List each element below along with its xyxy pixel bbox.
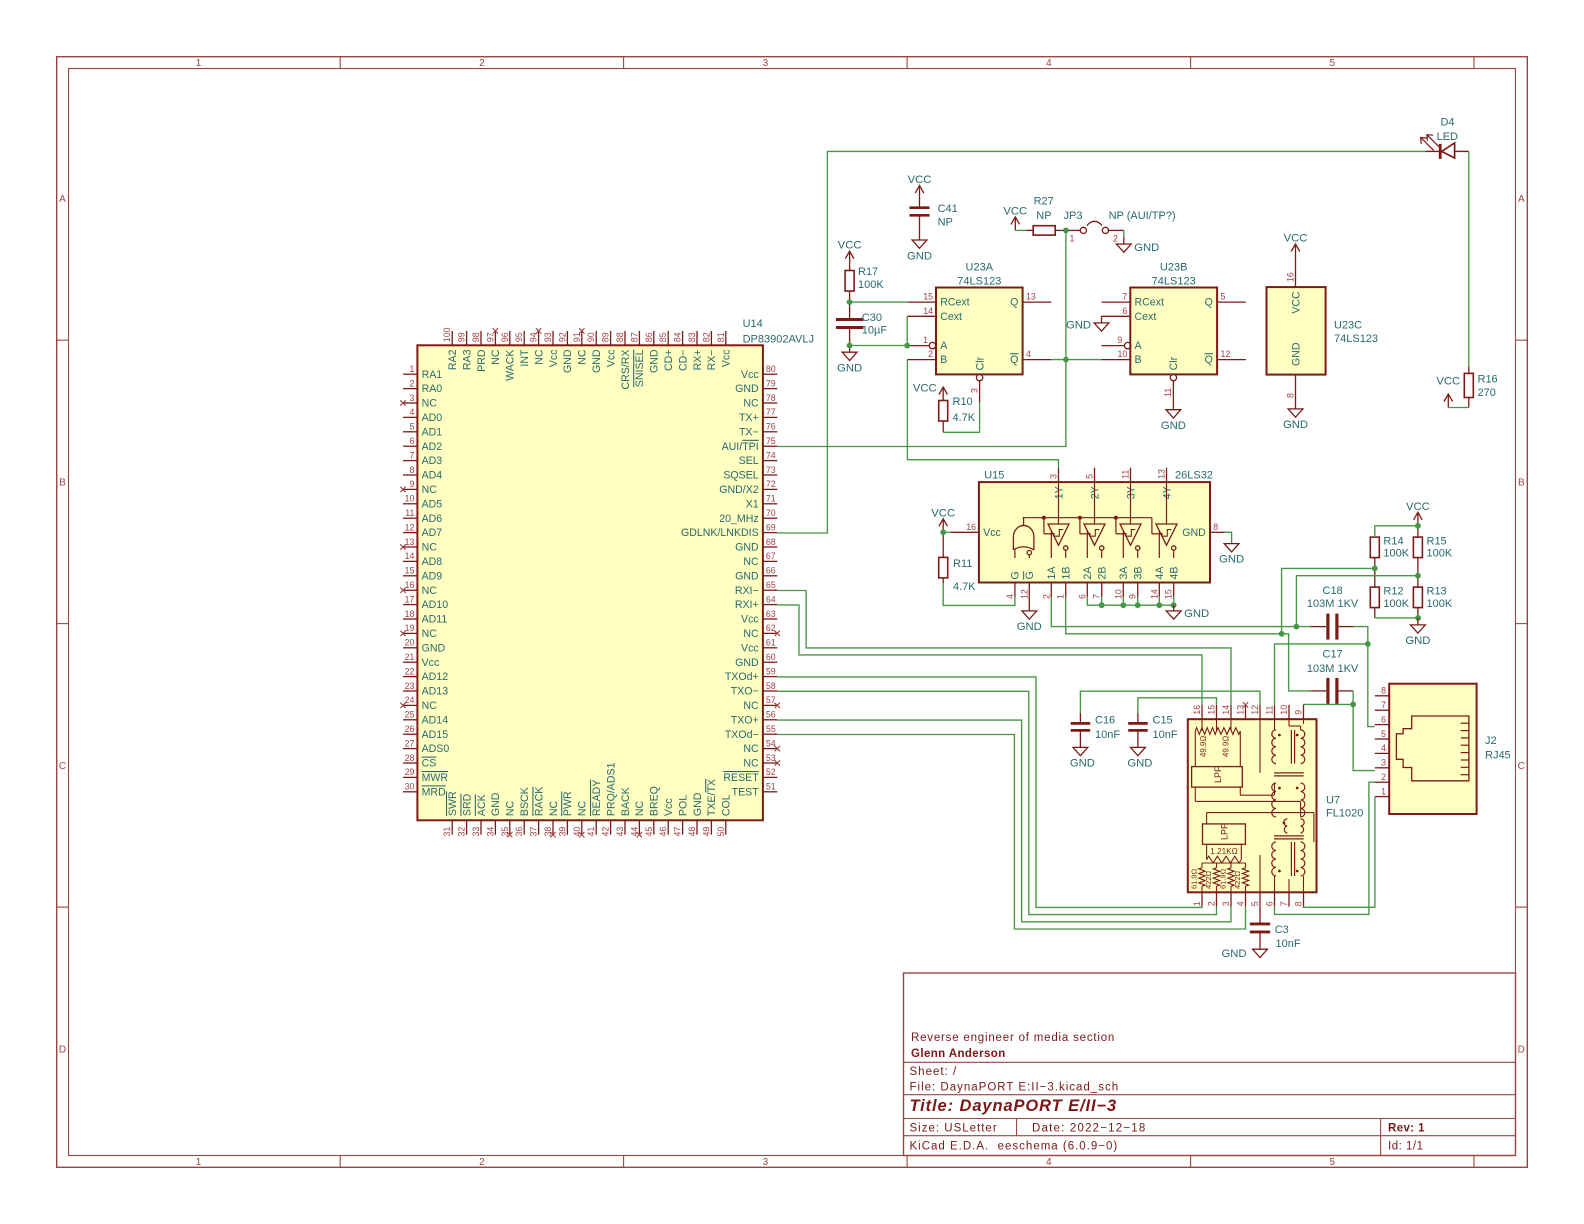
svg-text:VCC: VCC [1284, 233, 1308, 245]
svg-text:7: 7 [409, 450, 414, 460]
svg-text:98: 98 [471, 332, 481, 342]
wire AUI net U14.75 / R27 / JP3 / U23A.Q4 / U23B.B10 [777, 228, 1101, 447]
wire U7.8 to J2.1 [1304, 797, 1375, 908]
svg-text:4: 4 [1381, 743, 1386, 753]
svg-text:38: 38 [543, 827, 553, 837]
svg-text:99: 99 [457, 332, 467, 342]
svg-text:GND: GND [1134, 242, 1159, 254]
svg-text:Glenn Anderson: Glenn Anderson [911, 1048, 1006, 1060]
svg-text:JP3: JP3 [1064, 210, 1083, 222]
svg-text:9: 9 [1294, 710, 1304, 715]
svg-text:46: 46 [658, 827, 668, 837]
svg-text:11: 11 [1121, 470, 1131, 479]
wire VCC to R14 [1375, 523, 1421, 537]
svg-text:NP (AUI/TP?): NP (AUI/TP?) [1109, 210, 1176, 222]
svg-text:1: 1 [1070, 234, 1075, 244]
svg-text:3: 3 [969, 388, 979, 393]
svg-text:422Ω: 422Ω [1233, 870, 1242, 889]
svg-text:94: 94 [529, 332, 539, 342]
svg-text:AD2: AD2 [422, 441, 443, 453]
svg-text:13: 13 [1157, 469, 1167, 479]
svg-text:RCext: RCext [940, 297, 969, 309]
svg-text:NC: NC [743, 628, 759, 640]
svg-text:4B: 4B [1169, 567, 1181, 580]
svg-text:16: 16 [1285, 272, 1295, 282]
wire TXOd+ U14.59 to U7.1 [777, 677, 1202, 908]
svg-text:R10: R10 [953, 396, 973, 408]
svg-text:SQSEL: SQSEL [723, 470, 758, 482]
wire U7.6 to J2.2 [1275, 782, 1375, 914]
svg-text:5: 5 [1330, 58, 1336, 69]
svg-text:Vcc: Vcc [548, 349, 560, 367]
svg-text:66: 66 [766, 566, 776, 576]
svg-text:CD+: CD+ [663, 350, 675, 372]
svg-text:AD10: AD10 [422, 599, 449, 611]
resistor R15 100K [1413, 526, 1452, 576]
svg-text:6: 6 [1265, 901, 1275, 906]
svg-text:LED: LED [1437, 131, 1458, 143]
svg-text:16: 16 [966, 522, 976, 532]
svg-text:68: 68 [766, 537, 776, 547]
svg-text:A: A [940, 340, 948, 352]
svg-text:GND: GND [591, 349, 603, 373]
wire U15.2 1A to C18 and R15/R13 [1051, 573, 1421, 630]
svg-text:32: 32 [457, 827, 467, 837]
svg-text:5: 5 [1221, 292, 1226, 302]
svg-text:Reverse engineer of media sect: Reverse engineer of media section [911, 1032, 1115, 1044]
svg-text:79: 79 [766, 378, 776, 388]
svg-text:U23B: U23B [1160, 262, 1188, 274]
svg-text:Vcc: Vcc [663, 798, 675, 816]
svg-text:G: G [1010, 571, 1022, 579]
svg-text:SWR: SWR [447, 791, 459, 816]
svg-text:49.9Ω: 49.9Ω [1221, 736, 1230, 757]
svg-text:6: 6 [409, 436, 414, 446]
resistor R12 100K [1370, 568, 1409, 618]
svg-text:RA3: RA3 [461, 349, 473, 370]
wire U23A Clr to R10 [943, 402, 979, 432]
svg-text:75: 75 [766, 436, 776, 446]
resistor R10 4.7K [939, 396, 976, 432]
svg-text:23: 23 [405, 681, 415, 691]
svg-text:3: 3 [1381, 758, 1386, 768]
svg-text:AD3: AD3 [422, 455, 443, 467]
svg-text:40: 40 [572, 827, 582, 837]
svg-text:14: 14 [1149, 589, 1159, 599]
svg-text:R13: R13 [1427, 586, 1447, 598]
svg-text:SEL: SEL [739, 455, 759, 467]
svg-text:71: 71 [766, 494, 776, 504]
svg-text:49.9Ω: 49.9Ω [1199, 736, 1208, 757]
svg-text:20_MHz: 20_MHz [719, 513, 758, 525]
svg-text:3: 3 [763, 58, 769, 69]
svg-text:45: 45 [644, 827, 654, 837]
svg-text:Vcc: Vcc [741, 369, 759, 381]
svg-text:AD1: AD1 [422, 426, 443, 438]
ground C41 [907, 240, 932, 262]
power VCC R10 [913, 383, 948, 401]
svg-text:PRQ/ADS1: PRQ/ADS1 [605, 762, 617, 816]
svg-text:GND/X2: GND/X2 [719, 484, 759, 496]
svg-text:97: 97 [485, 332, 495, 342]
svg-text:LPF: LPF [1213, 766, 1223, 783]
svg-text:83: 83 [687, 332, 697, 342]
svg-text:X1: X1 [746, 498, 759, 510]
svg-text:VCC: VCC [913, 383, 937, 395]
svg-text:NP: NP [938, 217, 953, 229]
ground R12/R13 [1405, 618, 1430, 647]
svg-text:GND: GND [907, 250, 932, 262]
svg-text:2: 2 [479, 58, 485, 69]
svg-text:9: 9 [1117, 335, 1122, 345]
svg-text:SRD: SRD [461, 793, 473, 816]
ground U23B pin6 [1066, 316, 1109, 331]
svg-text:AD14: AD14 [422, 714, 449, 726]
wire GDLNK net U14.69 to D4 to R16 [777, 151, 1469, 533]
svg-text:2: 2 [479, 1157, 485, 1168]
wire R17/C30 to U23A pin15 [847, 299, 908, 305]
svg-text:Sheet: /: Sheet: / [910, 1066, 958, 1078]
svg-text:NC: NC [634, 800, 646, 816]
svg-text:10nF: 10nF [1276, 938, 1301, 950]
svg-text:4.7K: 4.7K [953, 412, 976, 424]
ground U15 pin8 [1219, 532, 1244, 565]
svg-text:72: 72 [766, 479, 776, 489]
svg-text:G: G [1024, 571, 1036, 579]
svg-text:25: 25 [405, 710, 415, 720]
svg-text:BSCK: BSCK [519, 787, 531, 816]
svg-text:103M 1KV: 103M 1KV [1307, 598, 1359, 610]
svg-text:RJ45: RJ45 [1485, 750, 1511, 762]
wire R12/R13 bottoms to GND [1375, 615, 1421, 621]
svg-text:NC: NC [743, 556, 759, 568]
svg-text:AD8: AD8 [422, 556, 443, 568]
svg-text:RX+: RX+ [692, 350, 704, 371]
svg-text:1: 1 [409, 364, 414, 374]
svg-text:Vcc: Vcc [422, 657, 440, 669]
svg-text:6: 6 [1381, 714, 1386, 724]
svg-text:TXOd−: TXOd− [725, 729, 759, 741]
svg-text:64: 64 [766, 594, 776, 604]
wire U15 input ground bus [1087, 597, 1173, 605]
svg-text:12: 12 [1019, 589, 1029, 599]
svg-text:VCC: VCC [1290, 291, 1302, 314]
svg-text:LPF: LPF [1220, 823, 1230, 840]
svg-text:2: 2 [1113, 234, 1118, 244]
svg-text:TX+: TX+ [739, 412, 759, 424]
svg-text:100K: 100K [1427, 548, 1453, 560]
svg-text:RXI+: RXI+ [735, 599, 759, 611]
svg-text:Date: 2022−12−18: Date: 2022−12−18 [1032, 1123, 1146, 1135]
svg-text:92: 92 [557, 332, 567, 342]
svg-text:1: 1 [1056, 594, 1066, 599]
ground JP3 pin2 [1116, 230, 1159, 254]
svg-text:CRS/RX: CRS/RX [620, 350, 632, 390]
svg-text:31: 31 [442, 827, 452, 837]
svg-text:AD13: AD13 [422, 686, 449, 698]
svg-text:NC: NC [533, 349, 545, 365]
svg-text:50: 50 [716, 827, 726, 837]
svg-text:AD6: AD6 [422, 513, 443, 525]
svg-text:10: 10 [1113, 589, 1123, 599]
svg-text:FL1020: FL1020 [1326, 808, 1363, 820]
svg-text:100K: 100K [1383, 598, 1409, 610]
svg-text:15: 15 [405, 566, 415, 576]
svg-text:53: 53 [766, 753, 776, 763]
svg-text:87: 87 [629, 332, 639, 342]
title block [904, 973, 1516, 1156]
svg-text:U14: U14 [743, 318, 763, 330]
svg-text:42: 42 [601, 827, 611, 837]
svg-text:RA2: RA2 [447, 349, 459, 370]
IC U14 DP83902AVLJ [400, 318, 814, 837]
svg-text:GND: GND [735, 542, 759, 554]
svg-text:3B: 3B [1133, 567, 1145, 580]
capacitor C41 NP [910, 199, 958, 240]
ground C3 [1221, 948, 1267, 960]
svg-text:AD4: AD4 [422, 470, 443, 482]
svg-text:D: D [59, 1044, 66, 1055]
svg-text:NC: NC [548, 800, 560, 816]
svg-text:B: B [940, 354, 947, 366]
svg-text:34: 34 [485, 827, 495, 837]
svg-text:INT: INT [519, 349, 531, 367]
svg-text:READY: READY [591, 780, 603, 817]
svg-text:18: 18 [405, 609, 415, 619]
svg-text:C17: C17 [1323, 649, 1343, 661]
wire U15.1 1B to C17 and R14/R12 [1066, 566, 1378, 691]
svg-text:59: 59 [766, 666, 776, 676]
svg-text:33: 33 [471, 827, 481, 837]
svg-text:NC: NC [490, 349, 502, 365]
svg-text:14: 14 [923, 306, 933, 316]
svg-text:21: 21 [405, 652, 415, 662]
svg-text:BREQ: BREQ [649, 786, 661, 816]
svg-text:2: 2 [1381, 772, 1386, 782]
capacitor C16 10nF [1071, 713, 1121, 748]
svg-text:B: B [59, 477, 66, 488]
svg-text:NC: NC [422, 700, 438, 712]
resistor R14 100K [1370, 536, 1409, 569]
svg-text:C15: C15 [1153, 715, 1173, 727]
svg-text:DP83902AVLJ: DP83902AVLJ [743, 334, 814, 346]
svg-text:AD7: AD7 [422, 527, 443, 539]
svg-text:MRD: MRD [422, 786, 446, 798]
svg-text:GND: GND [562, 349, 574, 373]
resistor R13 100K [1413, 576, 1452, 618]
ground U15 pin12 [1017, 597, 1042, 633]
svg-text:78: 78 [766, 393, 776, 403]
svg-text:103M 1KV: 103M 1KV [1307, 663, 1359, 675]
svg-text:PWR: PWR [562, 791, 574, 816]
svg-text:5: 5 [1085, 474, 1095, 479]
svg-text:5: 5 [1381, 729, 1386, 739]
wire U15 Vcc to R11 [940, 529, 950, 535]
power VCC U23C [1284, 233, 1308, 258]
svg-text:16: 16 [1192, 705, 1202, 715]
svg-text:C30: C30 [862, 312, 882, 324]
svg-text:51: 51 [766, 782, 776, 792]
svg-text:270: 270 [1478, 387, 1496, 399]
svg-text:7: 7 [1381, 700, 1386, 710]
svg-text:A: A [1135, 340, 1143, 352]
svg-text:VCC: VCC [908, 174, 932, 186]
svg-text:RESET: RESET [723, 772, 759, 784]
svg-text:TXOd+: TXOd+ [725, 671, 759, 683]
diode D4 LED [1421, 116, 1469, 159]
svg-text:100K: 100K [1383, 548, 1409, 560]
svg-text:12: 12 [405, 522, 415, 532]
svg-text:15: 15 [1164, 589, 1174, 599]
power VCC R17 [838, 240, 862, 265]
svg-text:TXO−: TXO− [731, 686, 759, 698]
svg-text:CS: CS [422, 758, 437, 770]
wire C17 right to J2.3 and U7.9 [1304, 691, 1375, 771]
svg-text:GND: GND [1219, 553, 1244, 565]
svg-text:2Y: 2Y [1089, 486, 1101, 499]
IC U7 FL1020 [1188, 702, 1364, 907]
svg-text:AD0: AD0 [422, 412, 443, 424]
svg-text:Vcc: Vcc [721, 349, 733, 367]
svg-text:R17: R17 [858, 266, 878, 278]
svg-text:File: DaynaPORT E:II−3.kicad_s: File: DaynaPORT E:II−3.kicad_sch [910, 1082, 1120, 1094]
svg-text:65: 65 [766, 580, 776, 590]
svg-text:82: 82 [701, 332, 711, 342]
svg-text:58: 58 [766, 681, 776, 691]
svg-text:AD12: AD12 [422, 671, 449, 683]
svg-text:5: 5 [409, 422, 414, 432]
svg-text:67: 67 [766, 551, 776, 561]
svg-text:10: 10 [405, 494, 415, 504]
IC U15 26LS32 [950, 468, 1224, 599]
svg-text:AD5: AD5 [422, 498, 443, 510]
svg-text:NP: NP [1036, 210, 1051, 222]
svg-text:14: 14 [1221, 705, 1231, 715]
svg-text:GND: GND [422, 642, 446, 654]
svg-text:2: 2 [928, 349, 933, 359]
svg-text:9: 9 [1128, 594, 1138, 599]
svg-text:28: 28 [405, 753, 415, 763]
svg-text:GDLNK/LNKDIS: GDLNK/LNKDIS [681, 527, 759, 539]
svg-text:77: 77 [766, 407, 776, 417]
svg-text:VCC: VCC [931, 507, 955, 519]
svg-text:4Y: 4Y [1161, 486, 1173, 499]
svg-text:RXI−: RXI− [735, 585, 759, 597]
svg-text:Q: Q [1010, 354, 1018, 366]
svg-text:GND: GND [1017, 621, 1042, 633]
svg-text:37: 37 [529, 827, 539, 837]
svg-text:Vcc: Vcc [741, 642, 759, 654]
svg-text:29: 29 [405, 767, 415, 777]
svg-text:5: 5 [1330, 1157, 1336, 1168]
IC U23A 74LS123 [907, 262, 1051, 403]
svg-text:Clr: Clr [974, 356, 986, 370]
svg-text:R27: R27 [1034, 196, 1054, 208]
svg-text:R12: R12 [1383, 586, 1403, 598]
svg-text:44: 44 [629, 827, 639, 837]
svg-text:8: 8 [1381, 686, 1386, 696]
svg-text:NC: NC [422, 628, 438, 640]
svg-text:15: 15 [923, 292, 933, 302]
svg-text:KiCad E.D.A. eeschema (6.0.9−: KiCad E.D.A. eeschema (6.0.9−0) [910, 1141, 1119, 1153]
svg-text:4.7K: 4.7K [953, 581, 976, 593]
ground C15 [1127, 747, 1152, 769]
svg-text:69: 69 [766, 522, 776, 532]
wire TXO+ U14.56 to U7.3 [777, 720, 1231, 922]
svg-text:NC: NC [743, 398, 759, 410]
svg-text:6: 6 [1077, 594, 1087, 599]
svg-text:80: 80 [766, 364, 776, 374]
svg-text:48: 48 [687, 827, 697, 837]
svg-text:GND: GND [1290, 342, 1302, 366]
svg-text:7: 7 [1092, 594, 1102, 599]
svg-text:95: 95 [514, 332, 524, 342]
svg-text:C: C [1518, 761, 1525, 772]
svg-text:2B: 2B [1097, 567, 1109, 580]
wire U23A.B pin2 to U15 pin3 [907, 360, 1058, 468]
svg-text:R15: R15 [1427, 536, 1447, 548]
svg-text:Cext: Cext [940, 311, 962, 323]
svg-text:17: 17 [405, 594, 415, 604]
svg-text:61: 61 [766, 638, 776, 648]
svg-text:84: 84 [673, 332, 683, 342]
wire R16 to VCC [1448, 407, 1469, 409]
svg-text:GND: GND [735, 657, 759, 669]
svg-text:10: 10 [1118, 349, 1128, 359]
svg-text:3: 3 [1049, 474, 1059, 479]
wire C16 to U7.12 [1080, 691, 1260, 713]
svg-text:Id: 1/1: Id: 1/1 [1388, 1141, 1423, 1153]
svg-text:422Ω: 422Ω [1204, 870, 1213, 889]
svg-text:GND: GND [1161, 420, 1186, 432]
svg-text:Title: DaynaPORT E/II−3: Title: DaynaPORT E/II−3 [910, 1097, 1118, 1115]
svg-text:56: 56 [766, 710, 776, 720]
svg-text:57: 57 [766, 695, 776, 705]
connector J2 RJ45 [1375, 684, 1511, 814]
svg-text:C41: C41 [938, 203, 958, 215]
svg-text:52: 52 [766, 767, 776, 777]
svg-text:63: 63 [766, 609, 776, 619]
svg-text:74LS123: 74LS123 [957, 275, 1001, 287]
svg-text:41: 41 [586, 827, 596, 837]
svg-text:10µF: 10µF [862, 324, 888, 336]
svg-text:9: 9 [409, 479, 414, 489]
wire C30 to U23A pin1/pin14 [847, 316, 910, 348]
svg-text:88: 88 [615, 332, 625, 342]
junction dots U15 ground bus [1099, 602, 1177, 608]
wire C18 right to J2.6 and U7.11 [1275, 627, 1375, 727]
wire C15 to U7.15 [1138, 698, 1217, 713]
svg-text:R11: R11 [953, 558, 972, 570]
svg-text:14: 14 [405, 551, 415, 561]
svg-text:1.21KΩ: 1.21KΩ [1210, 847, 1238, 856]
svg-text:47: 47 [673, 827, 683, 837]
svg-text:3: 3 [1221, 901, 1231, 906]
svg-text:AUI/TPI: AUI/TPI [722, 441, 759, 453]
svg-text:RACK: RACK [533, 787, 545, 816]
svg-text:4: 4 [1236, 901, 1246, 906]
svg-text:74: 74 [766, 450, 776, 460]
svg-text:24: 24 [405, 695, 415, 705]
svg-text:Size: USLetter: Size: USLetter [910, 1123, 998, 1135]
svg-text:COL: COL [721, 794, 733, 816]
svg-text:27: 27 [405, 738, 415, 748]
svg-text:100K: 100K [1427, 598, 1453, 610]
svg-text:60: 60 [766, 652, 776, 662]
svg-text:90: 90 [586, 332, 596, 342]
svg-text:93: 93 [543, 332, 553, 342]
svg-text:4: 4 [1005, 594, 1015, 599]
